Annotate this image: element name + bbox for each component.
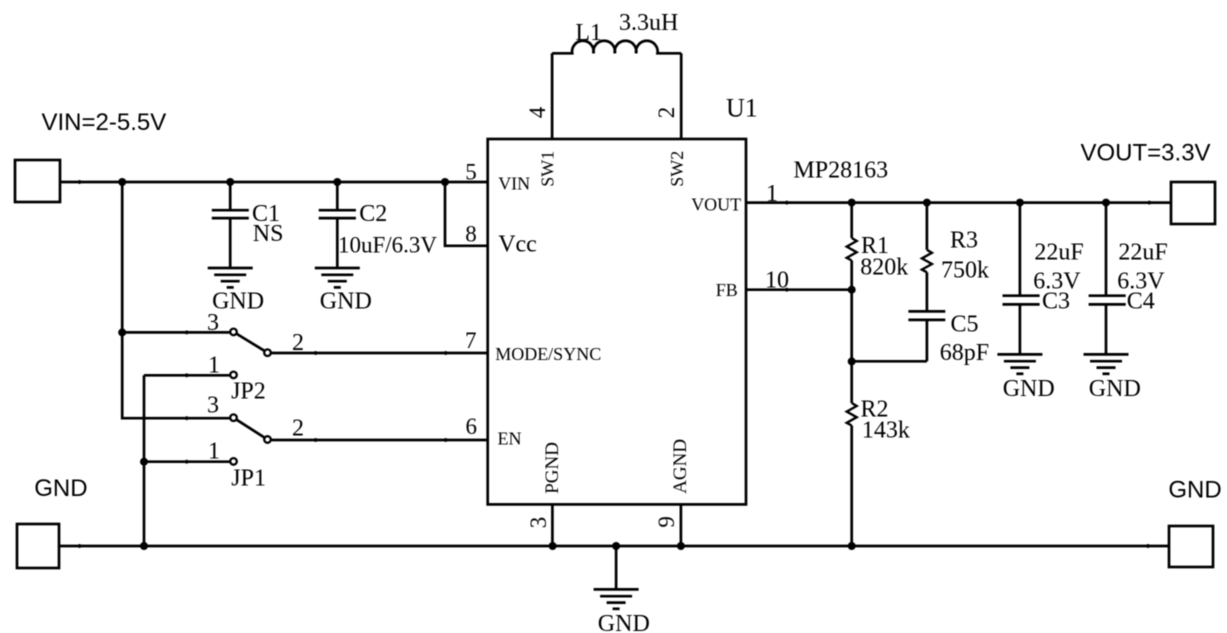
svg-text:SW1: SW1 (538, 151, 558, 187)
inductor L1 (552, 10, 681, 54)
svg-text:U1: U1 (726, 94, 758, 123)
junction bottom GND (612, 542, 620, 550)
junction C4 top (1102, 199, 1110, 207)
junction R3 top (923, 199, 931, 207)
wire JP2 pin1 stub (144, 372, 237, 379)
terminal pad VOUT (1171, 182, 1215, 224)
svg-text:8: 8 (465, 222, 477, 247)
ground GND (C4) (1084, 354, 1141, 402)
svg-text:750k: 750k (941, 257, 989, 283)
pin 1 VOUT (691, 181, 778, 215)
svg-text:GND: GND (1089, 376, 1141, 402)
wire JP2 pin3 branch (122, 331, 230, 335)
wire Vcc drop (445, 182, 488, 246)
svg-text:GND: GND (34, 475, 87, 502)
label net GND right (1168, 476, 1221, 503)
wire second vertical (143, 375, 146, 546)
svg-text:SW2: SW2 (667, 151, 687, 187)
svg-text:C4: C4 (1127, 288, 1155, 314)
capacitor C1 (212, 182, 284, 268)
junction AGND (677, 542, 685, 550)
ground GND (bottom) (594, 546, 650, 633)
terminal pad VIN (15, 160, 60, 202)
ground GND (C1) (208, 268, 264, 315)
IC U1 MP28163 (488, 94, 888, 505)
junction FB node (848, 286, 856, 294)
svg-text:6: 6 (466, 414, 478, 439)
svg-text:9: 9 (654, 516, 679, 528)
label net GND left (34, 475, 87, 502)
junction R1 top (848, 199, 856, 207)
junction bottom-left (140, 542, 148, 550)
terminal pad GND left (17, 524, 59, 568)
pin 7 MODE/SYNC (465, 328, 601, 364)
wire bottom GND bus (59, 544, 1169, 548)
svg-text:MODE/SYNC: MODE/SYNC (495, 344, 601, 364)
svg-text:VIN=2-5.5V: VIN=2-5.5V (42, 109, 167, 136)
junction C1 (226, 178, 234, 186)
junction PGND (549, 542, 557, 550)
wire JP1 pin2 to EN (272, 438, 488, 442)
junction R2 bottom (848, 542, 856, 550)
wire R1-R2 mid (850, 290, 853, 362)
svg-text:C3: C3 (1042, 288, 1070, 314)
svg-text:3: 3 (207, 310, 219, 336)
resistor R1 820k (847, 203, 909, 290)
junction Vcc (441, 178, 449, 186)
svg-text:MP28163: MP28163 (793, 158, 888, 184)
ground GND (C3) (997, 354, 1054, 402)
svg-text:3: 3 (526, 517, 551, 529)
svg-text:VOUT=3.3V: VOUT=3.3V (1081, 139, 1211, 166)
junction C2 (333, 178, 341, 186)
jumper JP2 (207, 310, 304, 404)
capacitor C3 22uF (1003, 203, 1084, 355)
svg-text:GND: GND (1003, 376, 1055, 402)
wire JP2 pin2 to MODE/SYNC (272, 351, 488, 355)
svg-text:FB: FB (716, 280, 738, 300)
svg-text:VIN: VIN (498, 174, 530, 194)
wire left vertical to JP1 pin3 (122, 182, 230, 420)
pin 10 FB (716, 268, 789, 301)
svg-text:GND: GND (212, 289, 264, 315)
svg-text:EN: EN (498, 429, 522, 449)
svg-text:C2: C2 (359, 201, 387, 227)
svg-text:JP2: JP2 (231, 378, 266, 404)
wire FB (746, 288, 852, 292)
svg-text:GND: GND (1168, 476, 1221, 503)
wire comp node horizontal (852, 360, 927, 363)
label net VIN=2-5.5V (42, 109, 167, 136)
pin 4 SW1 (525, 53, 558, 187)
capacitor C5 68pF (908, 311, 989, 366)
resistor R3 750k (922, 203, 989, 312)
wire JP1 pin1 stub (144, 458, 237, 465)
label net VOUT=3.3V (1081, 139, 1211, 166)
svg-text:PGND: PGND (542, 442, 563, 494)
junction JP2 branch (118, 328, 126, 336)
svg-text:4: 4 (525, 106, 550, 118)
svg-text:C5: C5 (951, 311, 979, 337)
svg-text:7: 7 (465, 328, 477, 353)
ground GND (C2) (315, 268, 372, 315)
capacitor C2 (319, 182, 438, 268)
junction C3 top (1016, 199, 1024, 207)
pin 9 AGND (654, 439, 691, 546)
jumper JP1 (207, 393, 304, 492)
svg-text:3: 3 (207, 393, 219, 419)
pin 5 VIN (465, 159, 530, 193)
wire VOUT bus (746, 201, 1171, 205)
svg-text:22uF: 22uF (1034, 240, 1083, 266)
pin 6 EN (466, 414, 522, 448)
svg-text:820k: 820k (860, 255, 908, 281)
capacitor C4 22uF (1089, 203, 1168, 355)
svg-text:143k: 143k (862, 417, 910, 443)
svg-text:GND: GND (320, 289, 372, 315)
junction JP1 pin1 (140, 458, 148, 466)
wire VIN bus (60, 180, 488, 184)
svg-text:10uF/6.3V: 10uF/6.3V (338, 233, 437, 258)
svg-text:L1: L1 (575, 20, 602, 46)
svg-text:22uF: 22uF (1118, 240, 1167, 266)
svg-text:GND: GND (598, 611, 650, 633)
terminal pad GND right (1169, 526, 1213, 567)
svg-text:NS: NS (253, 221, 284, 247)
pin 2 SW2 (654, 53, 687, 187)
svg-text:2: 2 (292, 416, 304, 442)
svg-text:JP1: JP1 (231, 465, 266, 491)
svg-text:68pF: 68pF (940, 340, 989, 366)
svg-text:R3: R3 (950, 228, 978, 254)
pin 3 PGND (526, 442, 563, 546)
svg-text:3.3uH: 3.3uH (619, 10, 678, 36)
svg-text:AGND: AGND (670, 439, 691, 494)
svg-text:Vcc: Vcc (498, 232, 537, 258)
svg-text:2: 2 (654, 107, 679, 119)
resistor R2 143k (847, 361, 910, 546)
junction comp node (848, 357, 856, 365)
junction VIN-left (118, 178, 126, 186)
svg-text:5: 5 (465, 159, 477, 184)
pin 8 Vcc (465, 222, 537, 258)
svg-text:VOUT: VOUT (691, 195, 741, 215)
